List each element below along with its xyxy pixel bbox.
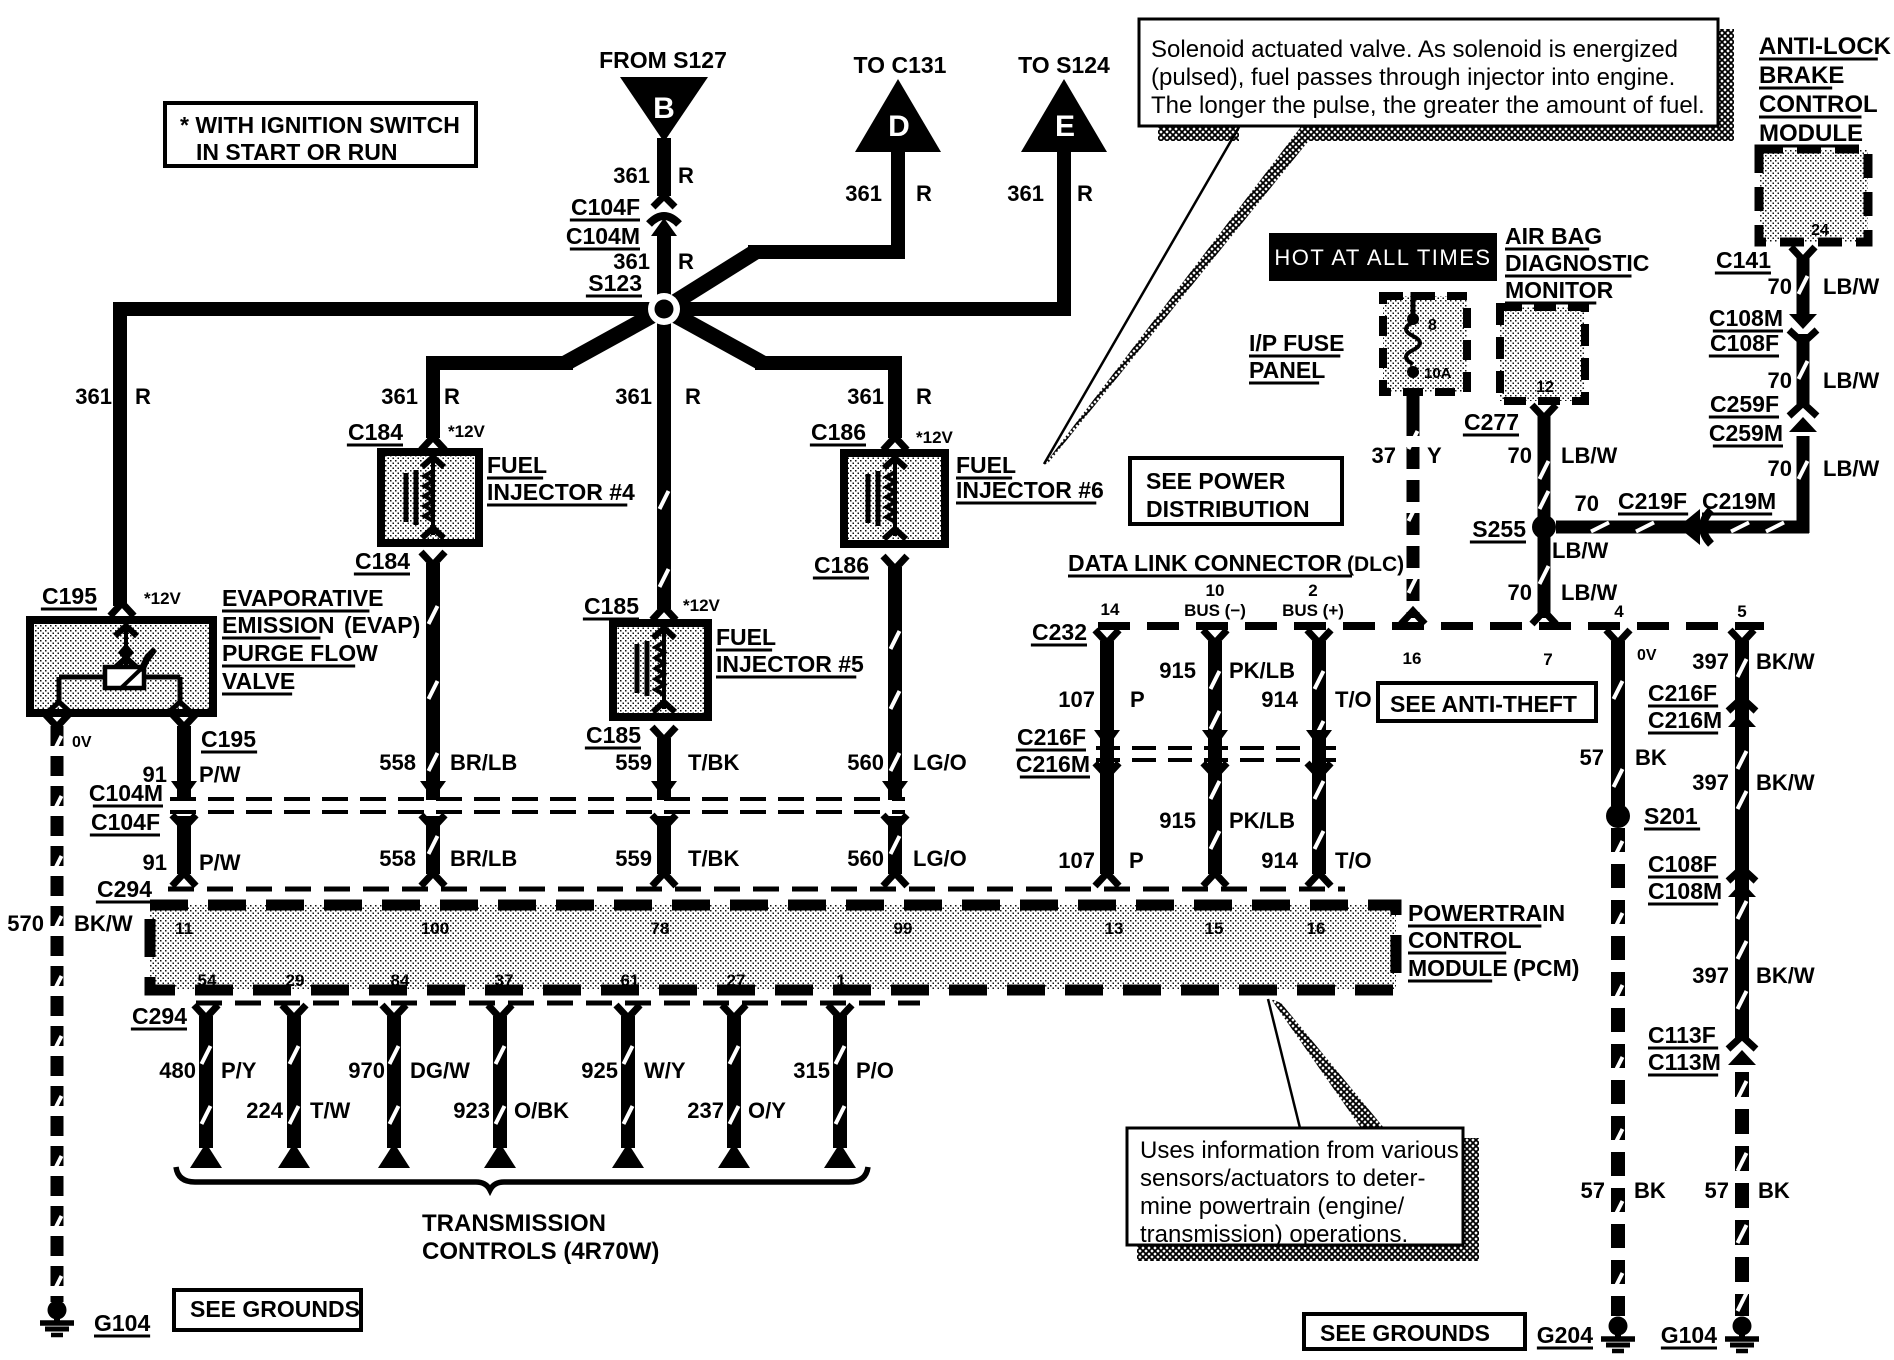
transmission control wire 5 bbox=[612, 1005, 644, 1168]
PCM pin 1 bbox=[836, 971, 845, 990]
connector C186 bottom bbox=[813, 552, 907, 578]
brace transmission controls bbox=[176, 1167, 868, 1190]
ground G104 right bbox=[1661, 1317, 1759, 1352]
svg-text:15: 15 bbox=[1205, 919, 1224, 938]
PCM pin 16 bbox=[1307, 919, 1326, 938]
see grounds box left bbox=[174, 1290, 361, 1330]
svg-text:559: 559 bbox=[615, 750, 652, 775]
svg-text:C108F: C108F bbox=[1648, 851, 1717, 877]
svg-text:Solenoid actuated valve. As s: Solenoid actuated valve. As solenoid is … bbox=[1151, 36, 1678, 63]
wire S255 to C219 horizontal bbox=[1556, 509, 1809, 545]
wire 558 BR/LB from injector4 bbox=[429, 563, 438, 800]
wire 558 row2 bbox=[421, 816, 445, 886]
svg-text:C216M: C216M bbox=[1648, 707, 1722, 733]
fuel injector #6 box U-C186 bbox=[844, 453, 945, 544]
svg-text:Uses information from various: Uses information from various bbox=[1140, 1137, 1459, 1164]
label 57 BK lower left bbox=[1581, 1178, 1666, 1203]
svg-text:70: 70 bbox=[1508, 443, 1532, 468]
svg-text:EMISSION: EMISSION bbox=[222, 612, 334, 638]
svg-text:361: 361 bbox=[613, 163, 650, 188]
svg-text:16: 16 bbox=[1403, 649, 1422, 668]
label 70 LB/W upper right bbox=[1768, 368, 1880, 393]
label TRANSMISSION CONTROLS (4R70W) bbox=[422, 1210, 659, 1265]
svg-text:C294: C294 bbox=[97, 876, 152, 902]
svg-text:P/W: P/W bbox=[199, 762, 241, 787]
svg-text:TO C131: TO C131 bbox=[854, 52, 947, 78]
svg-text:TRANSMISSION: TRANSMISSION bbox=[422, 1210, 606, 1237]
svg-text:DISTRIBUTION: DISTRIBUTION bbox=[1146, 496, 1310, 522]
ground G104 left bbox=[40, 1301, 150, 1337]
svg-text:VALVE: VALVE bbox=[222, 668, 295, 694]
callout box uses information bbox=[1127, 1128, 1463, 1248]
svg-text:C219M: C219M bbox=[1702, 488, 1776, 514]
svg-text:MODULE: MODULE bbox=[1408, 955, 1508, 981]
connector C185 bottom bbox=[585, 722, 676, 748]
svg-text:315: 315 bbox=[793, 1058, 830, 1083]
svg-text:HOT AT ALL TIMES: HOT AT ALL TIMES bbox=[1274, 245, 1491, 270]
label FUEL INJECTOR #6 bbox=[956, 452, 1104, 503]
svg-text:70: 70 bbox=[1575, 491, 1599, 516]
PCM pin 29 bbox=[286, 971, 305, 990]
PCM pin 54 bbox=[198, 971, 217, 990]
svg-text:*12V: *12V bbox=[144, 589, 182, 608]
DLC pin 5 bbox=[1737, 602, 1746, 621]
label 480 P/Y bbox=[159, 1058, 257, 1083]
svg-text:PK/LB: PK/LB bbox=[1229, 658, 1295, 683]
label 915 PK/LB row1 bbox=[1159, 658, 1295, 683]
label EVAPORATIVE EMISSION (EVAP) PURGE FLOW VALVE bbox=[222, 585, 420, 694]
svg-text:*12V: *12V bbox=[916, 428, 954, 447]
callout box uses information shadow bbox=[1137, 1138, 1479, 1261]
wire 915 PK/LB (pin10) bbox=[1203, 630, 1227, 886]
svg-text:G204: G204 bbox=[1537, 1322, 1593, 1348]
svg-text:C186: C186 bbox=[814, 552, 869, 578]
powertrain control module PCM box bbox=[150, 905, 1396, 990]
fuel injector #4 box U-C184 bbox=[381, 452, 479, 543]
wire 37 Y dashed bbox=[1401, 392, 1425, 624]
svg-text:914: 914 bbox=[1261, 848, 1298, 873]
PCM pin 15 bbox=[1205, 919, 1224, 938]
svg-text:T/O: T/O bbox=[1335, 687, 1372, 712]
label I/P FUSE PANEL bbox=[1249, 330, 1344, 383]
svg-text:27: 27 bbox=[727, 971, 746, 990]
svg-text:T/BK: T/BK bbox=[688, 750, 739, 775]
svg-text:LG/O: LG/O bbox=[913, 750, 967, 775]
label 923 O/BK bbox=[453, 1098, 569, 1123]
svg-text:54: 54 bbox=[198, 971, 217, 990]
svg-text:70: 70 bbox=[1768, 456, 1792, 481]
svg-text:361: 361 bbox=[845, 181, 882, 206]
label C294 upper bbox=[96, 876, 152, 902]
DLC bus dashed line bbox=[1098, 622, 1764, 630]
splice S255 bbox=[1470, 515, 1556, 542]
svg-text:7: 7 bbox=[1543, 650, 1552, 669]
connector below EVAP left (0V) bbox=[45, 714, 92, 751]
svg-text:107: 107 bbox=[1058, 687, 1095, 712]
connector C195 top bbox=[41, 583, 182, 616]
connector C113F/C113M on wire5 bbox=[1648, 1022, 1756, 1075]
svg-text:CONTROLS (4R70W): CONTROLS (4R70W) bbox=[422, 1238, 659, 1265]
transmission control wire 3 bbox=[378, 1005, 410, 1168]
svg-text:C108F: C108F bbox=[1710, 330, 1779, 356]
label FROM S127 bbox=[599, 47, 727, 73]
label 397 BK/W low bbox=[1692, 963, 1815, 988]
svg-text:S255: S255 bbox=[1472, 516, 1526, 542]
svg-text:559: 559 bbox=[615, 846, 652, 871]
svg-text:P/W: P/W bbox=[199, 850, 241, 875]
label 57 BK upper bbox=[1580, 745, 1667, 770]
svg-text:CONTROL: CONTROL bbox=[1759, 91, 1878, 118]
svg-text:W/Y: W/Y bbox=[644, 1058, 686, 1083]
svg-text:R: R bbox=[135, 384, 151, 409]
svg-text:224: 224 bbox=[246, 1098, 283, 1123]
DLC pin 2 BUS(+) bbox=[1282, 581, 1344, 620]
label 914 T/O row1 bbox=[1261, 687, 1371, 712]
svg-text:C113F: C113F bbox=[1648, 1022, 1716, 1048]
label 91 P/W row1 bbox=[143, 762, 241, 787]
triangle connector B (FROM S127) bbox=[620, 77, 708, 142]
label 70 LB/W above DLC bbox=[1508, 580, 1618, 605]
wire 107 P (pin14) bbox=[1095, 630, 1119, 886]
svg-text:INJECTOR #6: INJECTOR #6 bbox=[956, 477, 1104, 503]
svg-text:C186: C186 bbox=[811, 419, 866, 445]
svg-text:923: 923 bbox=[453, 1098, 490, 1123]
svg-text:*12V: *12V bbox=[683, 596, 721, 615]
svg-text:10A: 10A bbox=[1424, 365, 1452, 382]
label 70 C219F C219M bbox=[1575, 488, 1777, 516]
note box WITH IGNITION SWITCH bbox=[165, 103, 476, 166]
label 107 P row1 bbox=[1058, 687, 1144, 712]
svg-text:TO S124: TO S124 bbox=[1018, 52, 1110, 78]
svg-text:FUEL: FUEL bbox=[716, 624, 776, 650]
label 70 LB/W top right bbox=[1768, 274, 1880, 299]
wire S123 to D branch diagonal bbox=[664, 252, 755, 309]
label 70 LB/W below C277 bbox=[1508, 443, 1618, 468]
label 915 PK/LB row2 bbox=[1159, 808, 1295, 833]
svg-text:G104: G104 bbox=[94, 1310, 150, 1336]
inline connector C216F/C216M dashed line bbox=[1016, 724, 1345, 777]
label TO C131 bbox=[854, 52, 947, 78]
wire C186 vertical bbox=[888, 356, 902, 438]
svg-text:(PCM): (PCM) bbox=[1513, 955, 1579, 981]
label 57 BK lower right bbox=[1705, 1178, 1790, 1203]
svg-text:914: 914 bbox=[1261, 687, 1298, 712]
label LB/W below S255 bbox=[1552, 538, 1608, 563]
fuel injector #5 box U-C185 bbox=[613, 623, 708, 717]
svg-text:70: 70 bbox=[1768, 274, 1792, 299]
wire 57 BK (DLC pin4) with S201 bbox=[1606, 630, 1630, 1316]
label ANTI-LOCK BRAKE CONTROL MODULE bbox=[1759, 33, 1892, 147]
label 560 LG/O row2 bbox=[847, 846, 967, 871]
wire 70 LB/W vertical to ABS bbox=[1799, 258, 1808, 533]
connector C184 top bbox=[347, 419, 486, 450]
svg-text:BUS (−): BUS (−) bbox=[1184, 601, 1246, 620]
svg-text:C259M: C259M bbox=[1709, 420, 1783, 446]
svg-text:SEE POWER: SEE POWER bbox=[1146, 468, 1286, 494]
svg-text:925: 925 bbox=[581, 1058, 618, 1083]
svg-text:480: 480 bbox=[159, 1058, 196, 1083]
wire 559 T/BK from injector5 bbox=[657, 738, 671, 800]
DLC pin 14 bbox=[1101, 600, 1120, 619]
svg-text:(EVAP): (EVAP) bbox=[344, 612, 420, 638]
svg-text:O/Y: O/Y bbox=[748, 1098, 786, 1123]
svg-text:BR/LB: BR/LB bbox=[450, 846, 517, 871]
PCM pin 84 bbox=[391, 971, 410, 990]
label 107 P row2 bbox=[1058, 848, 1143, 873]
svg-text:AIR BAG: AIR BAG bbox=[1505, 223, 1602, 249]
connector C108M/C108F bbox=[1709, 305, 1817, 356]
label 361 R on E branch bbox=[1007, 181, 1093, 206]
label 361 R on left vertical bbox=[75, 384, 151, 409]
label C104M C104F bbox=[89, 780, 163, 835]
svg-text:12: 12 bbox=[1536, 379, 1554, 396]
svg-text:C104M: C104M bbox=[89, 780, 163, 806]
svg-text:C184: C184 bbox=[348, 419, 403, 445]
svg-text:558: 558 bbox=[379, 846, 416, 871]
label 570 BK/W bbox=[7, 911, 133, 936]
svg-text:361: 361 bbox=[381, 384, 418, 409]
PCM pin 37 bbox=[495, 971, 514, 990]
svg-text:BK/W: BK/W bbox=[1756, 649, 1815, 674]
svg-text:361: 361 bbox=[75, 384, 112, 409]
EVAP purge flow valve box bbox=[30, 620, 213, 713]
connector line C294 upper dashed bbox=[168, 887, 1345, 892]
svg-text:57: 57 bbox=[1705, 1178, 1729, 1203]
wire 560 LG/O from injector6 bbox=[891, 567, 900, 800]
svg-text:C232: C232 bbox=[1032, 619, 1087, 645]
svg-text:560: 560 bbox=[847, 846, 884, 871]
svg-text:SEE GROUNDS: SEE GROUNDS bbox=[190, 1296, 360, 1322]
svg-text:P/O: P/O bbox=[856, 1058, 894, 1083]
svg-text:14: 14 bbox=[1101, 600, 1120, 619]
svg-text:BK: BK bbox=[1635, 745, 1667, 770]
svg-text:POWERTRAIN: POWERTRAIN bbox=[1408, 900, 1565, 926]
svg-text:*12V: *12V bbox=[448, 422, 486, 441]
svg-text:100: 100 bbox=[421, 919, 449, 938]
label 559 T/BK row2 bbox=[615, 846, 739, 871]
svg-text:LB/W: LB/W bbox=[1552, 538, 1608, 563]
wire 70 LB/W from C277 bbox=[1532, 416, 1556, 624]
transmission control wire 2 bbox=[278, 1005, 310, 1168]
svg-text:C216F: C216F bbox=[1017, 724, 1086, 750]
wire S123 to triangle B (361 R) bbox=[657, 138, 671, 309]
connector C186 top bbox=[810, 419, 954, 450]
label POWERTRAIN CONTROL MODULE (PCM) bbox=[1408, 900, 1579, 981]
svg-text:237: 237 bbox=[687, 1098, 724, 1123]
triangle connector D (TO C131) bbox=[855, 79, 941, 152]
svg-text:24: 24 bbox=[1811, 222, 1829, 239]
label 0V pin4 bbox=[0, 0, 1, 1]
I/P fuse panel box with fuse 8 10A bbox=[1383, 292, 1467, 392]
label 361 R on C184 branch bbox=[381, 384, 460, 409]
svg-text:91: 91 bbox=[143, 850, 167, 875]
svg-text:16: 16 bbox=[1307, 919, 1326, 938]
label 70 LB/W mid right bbox=[1768, 456, 1880, 481]
wire S123 to E horizontal bbox=[664, 302, 1071, 316]
label S123 bbox=[586, 270, 642, 296]
svg-text:84: 84 bbox=[391, 971, 410, 990]
svg-text:5: 5 bbox=[1737, 602, 1746, 621]
svg-text:C141: C141 bbox=[1716, 247, 1771, 273]
svg-text:BK/W: BK/W bbox=[1756, 770, 1815, 795]
svg-text:R: R bbox=[444, 384, 460, 409]
svg-text:The longer the pulse, the grea: The longer the pulse, the greater the am… bbox=[1151, 92, 1705, 119]
svg-text:SEE GROUNDS: SEE GROUNDS bbox=[1320, 1320, 1490, 1346]
svg-text:MONITOR: MONITOR bbox=[1505, 277, 1614, 303]
label S201 bbox=[1644, 803, 1700, 829]
svg-text:570: 570 bbox=[7, 911, 44, 936]
callout box solenoid note shadow bbox=[1158, 29, 1734, 141]
svg-text:G104: G104 bbox=[1661, 1322, 1717, 1348]
wire 559 row2 bbox=[652, 816, 676, 886]
node S123 splice bbox=[648, 293, 680, 325]
svg-text:37: 37 bbox=[1372, 443, 1396, 468]
DLC pin 10 BUS(-) bbox=[1184, 581, 1246, 620]
svg-text:C294: C294 bbox=[132, 1003, 187, 1029]
svg-text:10: 10 bbox=[1206, 581, 1225, 600]
label AIR BAG DIAGNOSTIC MONITOR bbox=[1505, 223, 1649, 303]
svg-text:MODULE: MODULE bbox=[1759, 120, 1863, 147]
label 361 R on C186 branch bbox=[847, 384, 932, 409]
svg-text:R: R bbox=[678, 163, 694, 188]
svg-text:transmission) operations.: transmission) operations. bbox=[1140, 1221, 1408, 1248]
wire S123 left horizontal bbox=[113, 302, 671, 316]
transmission control wire 7 bbox=[824, 1005, 856, 1168]
wire 570 BK/W dashed to G104 bbox=[53, 726, 62, 1302]
label C108F/C108M right pair bbox=[1648, 851, 1722, 904]
svg-text:EVAPORATIVE: EVAPORATIVE bbox=[222, 585, 383, 611]
svg-text:LB/W: LB/W bbox=[1561, 580, 1617, 605]
svg-text:107: 107 bbox=[1058, 848, 1095, 873]
svg-text:P: P bbox=[1130, 687, 1145, 712]
svg-text:70: 70 bbox=[1768, 368, 1792, 393]
svg-text:DG/W: DG/W bbox=[410, 1058, 470, 1083]
wire E vertical bbox=[1057, 144, 1071, 316]
connector C104F/C104M inline on wire B bbox=[566, 194, 679, 249]
inline connector C104M/C104F dashed line bbox=[170, 781, 908, 828]
svg-text:LB/W: LB/W bbox=[1823, 274, 1879, 299]
svg-text:R: R bbox=[678, 249, 694, 274]
label 224 T/W bbox=[246, 1098, 350, 1123]
svg-text:C219F: C219F bbox=[1618, 488, 1687, 514]
svg-text:C108M: C108M bbox=[1709, 305, 1783, 331]
PCM pin 13 bbox=[1105, 919, 1124, 938]
wire D branch horizontal bbox=[748, 245, 905, 259]
connector C277 bbox=[1463, 405, 1556, 435]
wire 397 BK/W (DLC pin5) bbox=[1730, 630, 1754, 1316]
svg-text:PK/LB: PK/LB bbox=[1229, 808, 1295, 833]
anti-lock brake control module box bbox=[1759, 149, 1868, 242]
svg-text:* WITH IGNITION SWITCH: * WITH IGNITION SWITCH bbox=[180, 112, 460, 138]
svg-text:78: 78 bbox=[651, 919, 670, 938]
svg-text:LB/W: LB/W bbox=[1561, 443, 1617, 468]
svg-text:T/O: T/O bbox=[1335, 848, 1372, 873]
svg-text:C108M: C108M bbox=[1648, 878, 1722, 904]
svg-text:(pulsed), fuel passes through: (pulsed), fuel passes through injector i… bbox=[1151, 64, 1675, 91]
svg-text:E: E bbox=[1055, 110, 1075, 143]
label 361 R upper bbox=[613, 163, 694, 188]
label 558 BR/LB row2 bbox=[379, 846, 517, 871]
svg-text:D: D bbox=[888, 110, 910, 143]
label DATA LINK CONNECTOR (DLC) bbox=[1068, 550, 1404, 576]
svg-text:29: 29 bbox=[286, 971, 305, 990]
svg-text:DATA LINK CONNECTOR: DATA LINK CONNECTOR bbox=[1068, 550, 1342, 576]
label FUEL INJECTOR #5 bbox=[716, 624, 864, 677]
connector C259F/C259M bbox=[1709, 391, 1817, 446]
triangle connector E (TO S124) bbox=[1021, 79, 1107, 152]
connector C185 top bbox=[583, 593, 721, 620]
label TO S124 bbox=[1018, 52, 1110, 78]
svg-text:SEE ANTI-THEFT: SEE ANTI-THEFT bbox=[1390, 691, 1577, 717]
label 361 R on D branch bbox=[845, 181, 932, 206]
wire 91 P/W upper bbox=[177, 726, 191, 800]
svg-text:ANTI-LOCK: ANTI-LOCK bbox=[1759, 33, 1892, 60]
callout tail lines from PCM bbox=[1268, 999, 1384, 1128]
svg-text:R: R bbox=[916, 384, 932, 409]
svg-text:BR/LB: BR/LB bbox=[450, 750, 517, 775]
wire D branch vertical bbox=[891, 144, 905, 252]
svg-text:BK: BK bbox=[1758, 1178, 1790, 1203]
svg-text:57: 57 bbox=[1580, 745, 1604, 770]
svg-text:LG/O: LG/O bbox=[913, 846, 967, 871]
connector C184 bottom bbox=[354, 548, 445, 574]
label 925 W/Y bbox=[581, 1058, 686, 1083]
DLC pin 16 bbox=[1403, 649, 1422, 668]
callout box solenoid note bbox=[1139, 19, 1718, 126]
PCM pin 100 bbox=[421, 919, 449, 938]
svg-text:BK/W: BK/W bbox=[74, 911, 133, 936]
hot at all times box bbox=[1269, 233, 1497, 281]
PCM pin 61 bbox=[621, 971, 640, 990]
connector below EVAP right C195 bbox=[172, 714, 257, 752]
svg-text:(DLC): (DLC) bbox=[1347, 553, 1404, 576]
label C232 bbox=[1031, 619, 1087, 645]
svg-text:61: 61 bbox=[621, 971, 640, 990]
wire C184 vertical bbox=[426, 356, 440, 438]
connector C108F/C108M on wire5 bbox=[1728, 868, 1756, 897]
svg-text:8: 8 bbox=[1428, 317, 1437, 334]
svg-text:R: R bbox=[916, 181, 932, 206]
svg-text:C195: C195 bbox=[42, 583, 97, 609]
svg-text:INJECTOR #5: INJECTOR #5 bbox=[716, 651, 864, 677]
air bag diagnostic monitor box bbox=[1500, 307, 1585, 401]
svg-text:S123: S123 bbox=[588, 270, 642, 296]
see grounds box right bbox=[1304, 1314, 1525, 1349]
label 914 T/O row2 bbox=[1261, 848, 1371, 873]
svg-text:R: R bbox=[1077, 181, 1093, 206]
svg-text:R: R bbox=[685, 384, 701, 409]
svg-text:397: 397 bbox=[1692, 649, 1729, 674]
wire S123 down to C185 bbox=[660, 309, 669, 609]
svg-text:4: 4 bbox=[1614, 602, 1624, 621]
svg-text:sensors/actuators to deter-: sensors/actuators to deter- bbox=[1140, 1165, 1425, 1192]
label 37 Y bbox=[1372, 443, 1442, 468]
svg-text:BUS (+): BUS (+) bbox=[1282, 601, 1344, 620]
svg-text:O/BK: O/BK bbox=[514, 1098, 569, 1123]
connector line C294 lower dashed bbox=[196, 1001, 920, 1006]
svg-text:2: 2 bbox=[1308, 581, 1317, 600]
svg-text:361: 361 bbox=[615, 384, 652, 409]
svg-text:LB/W: LB/W bbox=[1823, 368, 1879, 393]
transmission control wire 1 bbox=[190, 1005, 222, 1168]
wire C184 horizontal bbox=[426, 356, 573, 370]
svg-text:C113M: C113M bbox=[1648, 1049, 1721, 1075]
svg-text:INJECTOR #4: INJECTOR #4 bbox=[487, 479, 635, 505]
label 560 LG/O row1 bbox=[847, 750, 967, 775]
svg-text:970: 970 bbox=[348, 1058, 385, 1083]
label 970 DG/W bbox=[348, 1058, 470, 1083]
svg-text:IN START OR RUN: IN START OR RUN bbox=[196, 139, 397, 165]
